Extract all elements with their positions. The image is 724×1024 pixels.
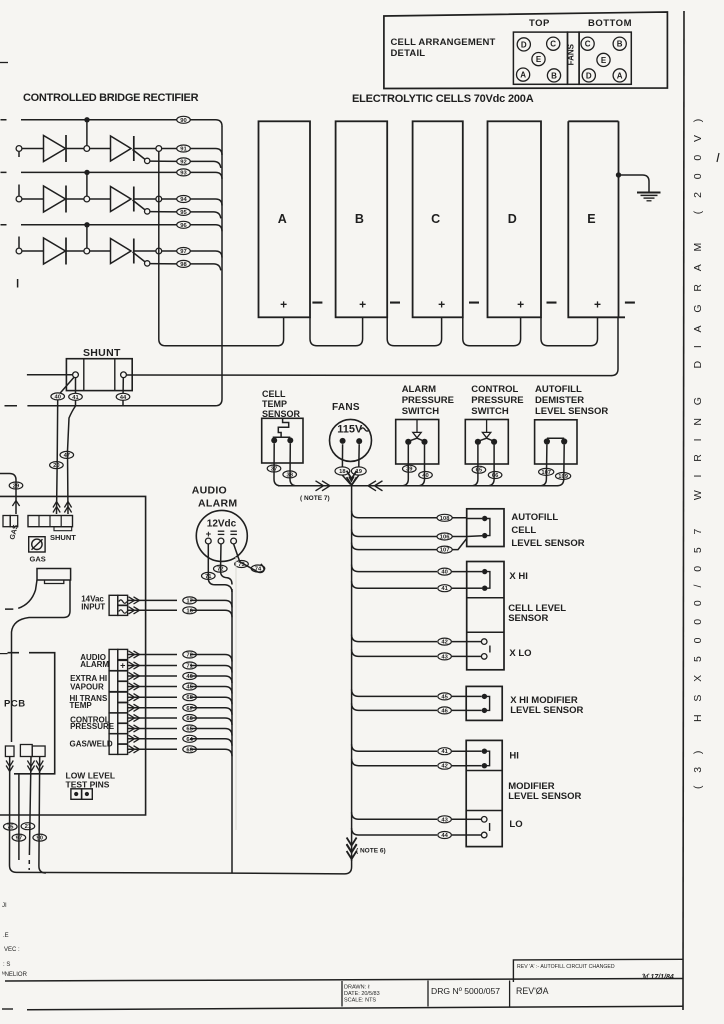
wire: demister lead 109 xyxy=(557,445,564,486)
svg-text:LEVEL SENSOR: LEVEL SENSOR xyxy=(535,406,608,417)
node: cell position E (top) xyxy=(532,53,545,66)
node 44 (oval) xyxy=(438,832,452,839)
fold line artifact (faint) xyxy=(235,557,237,830)
wire: CONTROL PRESSURE lead 65 xyxy=(128,729,232,736)
node 98 (oval label) xyxy=(177,260,191,267)
svg-text:SWITCH: SWITCH xyxy=(471,406,509,417)
node 29 (oval) xyxy=(9,482,23,489)
svg-text:C: C xyxy=(431,212,440,226)
node 96 (oval label on AC line 3) xyxy=(177,221,191,228)
wire: AC terminal stub row 1 xyxy=(18,152,20,157)
svg-text:+: + xyxy=(438,298,445,312)
svg-text:REV 'A' :- AUTOFILL CIRCUIT C: REV 'A' :- AUTOFILL CIRCUIT CHANGED xyxy=(517,964,615,970)
wire: demister lead 107 xyxy=(540,445,547,486)
shunt resistor body xyxy=(66,359,132,391)
svg-text:SHUNT: SHUNT xyxy=(83,347,121,359)
svg-text:CELL: CELL xyxy=(511,525,536,536)
autofill demister level sensor box xyxy=(535,420,577,464)
svg-text:TEMP: TEMP xyxy=(70,701,93,710)
node 106 (oval) xyxy=(437,533,452,540)
node 75 (oval) xyxy=(4,823,18,830)
wire: alarm pressure switch lead 40 xyxy=(418,445,425,486)
thyristor Q3 xyxy=(111,239,132,264)
connector chevron on lead 45 xyxy=(129,683,140,690)
svg-text:20: 20 xyxy=(53,463,59,469)
node 67 (oval) xyxy=(183,704,197,711)
node 66 (oval) xyxy=(488,472,502,479)
svg-text:C: C xyxy=(550,40,556,49)
terminal circle: alarm + xyxy=(205,538,211,544)
svg-text:E: E xyxy=(587,212,595,226)
svg-text:CONTROL: CONTROL xyxy=(471,384,518,395)
svg-text:ᴺNELIOR: ᴺNELIOR xyxy=(2,971,28,978)
wire: EXTRA HI VAPOUR lead 45 xyxy=(128,687,232,694)
svg-text:92: 92 xyxy=(180,159,186,165)
svg-text:E: E xyxy=(536,55,542,64)
X HI contacts xyxy=(485,572,490,589)
wire: X HI lead 2 xyxy=(352,581,467,588)
wire: autofill cell level sensor lead 3 xyxy=(352,539,467,550)
node 43 (oval) xyxy=(438,653,452,660)
svg-text:29: 29 xyxy=(13,484,20,490)
svg-text:18: 18 xyxy=(339,469,346,475)
svg-text:66: 66 xyxy=(492,473,499,479)
node 40 (oval) xyxy=(438,568,452,575)
svg-text:90: 90 xyxy=(180,118,186,124)
svg-text:72: 72 xyxy=(186,653,192,659)
svg-text:ALARM: ALARM xyxy=(198,498,237,510)
label: minus terminal 3 xyxy=(469,302,479,304)
wire: shunt sense lead B down to terminal block xyxy=(68,400,76,514)
svg-text:71: 71 xyxy=(205,574,212,580)
contact bar and dots: alarm pressure switch xyxy=(408,438,424,441)
wire: page edge dash mid-left xyxy=(0,653,8,655)
terminal block: SHUNT input xyxy=(28,516,73,527)
node 17 (oval) xyxy=(183,597,197,604)
svg-text:TEST PINS: TEST PINS xyxy=(66,780,110,790)
title block: revision note box xyxy=(513,959,683,982)
terminal block: HI TRANS TEMP xyxy=(109,692,118,713)
node 66 (oval) xyxy=(183,715,197,722)
svg-text:X HI: X HI xyxy=(509,571,527,582)
wire: CONTROL PRESSURE lead 66 xyxy=(128,718,232,725)
connector chevron on lead 72 xyxy=(129,651,140,658)
wire: D3 to junction xyxy=(66,250,84,252)
svg-text:39: 39 xyxy=(406,467,413,473)
svg-text:FANS: FANS xyxy=(566,43,575,65)
terminal circle: shunt right xyxy=(121,372,127,378)
svg-text:91: 91 xyxy=(180,147,187,153)
svg-text:41: 41 xyxy=(441,586,448,592)
svg-text:65: 65 xyxy=(476,468,483,474)
wire: fan lead 19 xyxy=(358,444,360,467)
svg-text:109: 109 xyxy=(558,474,568,480)
node: cell position B (top) xyxy=(547,69,560,82)
box: PCB outline xyxy=(8,653,55,774)
connector chevron on lead 63 xyxy=(129,746,140,753)
node 41 (oval) xyxy=(438,748,452,755)
terminal block: PCB outputs xyxy=(5,746,14,757)
contact bar: cell temp sensor xyxy=(273,436,291,438)
node 45 (oval) xyxy=(183,683,197,690)
wire: control pressure switch lead 65 xyxy=(471,445,478,486)
svg-text:B: B xyxy=(551,71,557,80)
wire: 14Vac INPUT lead 16 xyxy=(128,610,232,617)
wire: mid junction to thyristor row 1 xyxy=(90,148,111,150)
label: minus terminal 1 xyxy=(312,302,322,304)
wire: GAS/WELD lead 64 xyxy=(128,739,232,746)
svg-text:CONTROLLED BRIDGE RECTIFIER: CONTROLLED BRIDGE RECTIFIER xyxy=(23,92,199,104)
diode D1 xyxy=(44,136,66,162)
wire: anode lead row 3 xyxy=(22,250,44,252)
wire: temp sensor lead 37 xyxy=(274,443,281,485)
wire: mid junction to thyristor row 3 xyxy=(90,250,111,252)
svg-text:A: A xyxy=(617,71,623,80)
svg-text:12Vdc: 12Vdc xyxy=(207,519,237,530)
label: minus terminal 5 xyxy=(625,302,635,304)
cell E (electrolytic cell body) xyxy=(568,121,625,317)
connector chevron on lead 71 xyxy=(129,662,140,669)
wire: oval 44 stub to bus line xyxy=(122,400,124,406)
node 43 (oval) xyxy=(438,816,452,823)
wire: HI lead 1 xyxy=(352,744,467,751)
node 42 (oval) xyxy=(438,638,452,645)
wire: alarm spare lead (pigtail) xyxy=(234,544,264,573)
svg-text:65: 65 xyxy=(186,727,193,733)
node 37 (oval) xyxy=(267,465,281,472)
terminal circle: alarm -2 xyxy=(231,538,237,544)
svg-text:AUDIO: AUDIO xyxy=(192,485,227,497)
cell D (electrolytic cell body) xyxy=(488,121,542,317)
diode D2 xyxy=(44,186,66,212)
wire: X HI modifier lead 2 xyxy=(352,703,467,710)
wire: output junction to right bus row 3 xyxy=(162,251,222,258)
svg-text:96: 96 xyxy=(180,223,187,229)
node 94 (oval label) xyxy=(177,196,191,203)
terminal circle row 2 AC side xyxy=(16,196,22,202)
wire: alarm pressure switch lead 39 xyxy=(402,445,409,486)
node: mid junction circle row 1 xyxy=(84,146,90,152)
svg-text:D: D xyxy=(521,40,527,49)
node: cell position E (bottom) xyxy=(597,53,610,66)
node junction dot on AC line 1 xyxy=(84,117,89,122)
node 93 (oval label on AC line 2) xyxy=(177,169,191,176)
node 18 (oval) xyxy=(335,467,350,475)
wire: autofill cell level sensor lead 2 xyxy=(352,530,467,537)
svg-text:74: 74 xyxy=(255,567,262,573)
wire: D1 to junction xyxy=(66,148,84,150)
X LO contacts (open) xyxy=(481,639,487,645)
connector chevron on lead 64 xyxy=(129,735,140,742)
svg-text:107: 107 xyxy=(541,470,551,476)
svg-text:40: 40 xyxy=(422,473,428,479)
wire: ground tap xyxy=(621,175,650,192)
svg-text:ALARM: ALARM xyxy=(402,384,436,395)
svg-text:63: 63 xyxy=(186,747,193,753)
svg-text:43: 43 xyxy=(441,817,448,823)
wire: shunt right terminal to oval 44 xyxy=(122,378,124,393)
node 72 (oval) xyxy=(183,651,197,658)
svg-text:64: 64 xyxy=(186,737,193,743)
label: minus terminal 4 xyxy=(547,302,557,304)
wire: 14Vac INPUT lead 17 xyxy=(128,600,232,607)
svg-text:68: 68 xyxy=(186,695,193,701)
svg-text:46: 46 xyxy=(186,674,193,680)
node 74 (oval) xyxy=(251,565,265,572)
title block: drawn/date/scale cell xyxy=(341,981,343,1007)
node 47 (oval) xyxy=(60,451,74,458)
svg-text:LEVEL SENSOR: LEVEL SENSOR xyxy=(510,705,583,716)
wire: shunt left terminal to oval 40 (diagonal) xyxy=(60,377,74,393)
wire: LO lead 1 xyxy=(352,812,467,819)
wire: shunt left terminal to oval 41 xyxy=(75,378,77,393)
gas sensor symbol (circle-slash in box) xyxy=(29,537,45,552)
pressure actuator: alarm pressure switch xyxy=(416,420,418,433)
connector chevron on lead 68 xyxy=(129,694,140,701)
svg-text:AUTOFILL: AUTOFILL xyxy=(535,384,582,395)
node: output junction circle row 2 xyxy=(156,196,162,202)
svg-text:INPUT: INPUT xyxy=(81,602,105,611)
svg-text:115V: 115V xyxy=(337,424,363,436)
svg-text:FANS: FANS xyxy=(332,402,360,413)
node: cell position B (bottom) xyxy=(613,37,626,50)
wire: left page stub dashes near rectifier xyxy=(17,279,19,288)
wire: X HI lead 1 xyxy=(352,565,467,572)
node 72 (oval) xyxy=(214,565,228,572)
cell C (electrolytic cell body) xyxy=(413,121,463,317)
wire: D2 to junction xyxy=(66,198,84,200)
LO contacts (open) xyxy=(481,817,487,823)
connector chevron: gas lead xyxy=(12,501,19,507)
node 38 (oval) xyxy=(283,471,297,478)
wire: HI TRANS TEMP lead 68 xyxy=(128,697,232,704)
wire: fan lead 18 xyxy=(341,444,343,467)
node 108 (oval) xyxy=(437,514,452,521)
connector chevrons: note 6 xyxy=(347,838,357,853)
wire: AC input line 2 xyxy=(1,172,223,179)
node: cell position D (bottom) xyxy=(582,69,595,82)
node 65 (oval) xyxy=(472,466,486,473)
box: cell arrangement TOP compartment xyxy=(513,32,567,84)
dash: top-left page edge mark xyxy=(0,62,8,64)
audio alarm sounder (circle) xyxy=(196,510,247,561)
wire: gate wire to right bus row 3 xyxy=(150,264,221,271)
terminal block: CONTROL PRESSURE xyxy=(109,713,118,734)
node 40 (oval) xyxy=(51,393,65,400)
connector chevron on lead 46 xyxy=(129,672,140,679)
svg-text:CELL ARRANGEMENT: CELL ARRANGEMENT xyxy=(391,37,496,48)
thyristor Q1 xyxy=(111,136,132,161)
contact bar and dots: control pressure switch xyxy=(478,438,494,441)
wire: gate lead Q2 xyxy=(133,200,146,210)
wire: mid junction to thyristor row 2 xyxy=(90,198,111,200)
connector chevrons: shunt leads into terminal block xyxy=(53,502,60,513)
wire: series link cell D to cell E xyxy=(541,317,598,346)
wire: vertical from AC dot to mid junction row 2 xyxy=(86,175,88,196)
svg-text:94: 94 xyxy=(180,197,187,203)
node 45 (oval) xyxy=(438,693,452,700)
svg-text:AUTOFILL: AUTOFILL xyxy=(511,512,558,523)
connector chevron on lead 67 xyxy=(129,704,140,711)
modifier level sensor box xyxy=(466,740,502,846)
wire: rectifier right collector bus (x=222) down, turning left at y=406 xyxy=(5,126,223,406)
svg-text:66: 66 xyxy=(186,716,193,722)
wire: temp sensor lead 38 xyxy=(290,443,297,485)
node 21 (oval) xyxy=(21,823,35,830)
label: - terminal 1 (double bar) xyxy=(218,530,225,532)
svg-text:LEVEL SENSOR: LEVEL SENSOR xyxy=(511,538,584,549)
svg-text:21: 21 xyxy=(25,824,32,830)
svg-text:DATE: 20/5/83: DATE: 20/5/83 xyxy=(344,991,380,997)
svg-text:JI: JI xyxy=(2,903,7,909)
wire: vertical from AC dot to mid junction row 1 xyxy=(86,122,88,145)
wire: cathode to bus junction row 3 xyxy=(134,250,156,252)
svg-text:67: 67 xyxy=(186,706,192,712)
transformer tab xyxy=(45,580,64,584)
node: cell position C (bottom) xyxy=(581,37,594,50)
terminal circle row 1 AC side xyxy=(16,146,22,152)
node 71 (oval) xyxy=(202,572,216,579)
svg-text:106: 106 xyxy=(440,535,450,541)
wire: control pressure switch lead 66 xyxy=(487,445,494,486)
node: mid junction circle row 3 xyxy=(84,248,90,254)
wire: EXTRA HI VAPOUR lead 46 xyxy=(128,676,232,683)
wire: series link cell A to cell B xyxy=(310,317,363,346)
svg-text:DETAIL: DETAIL xyxy=(391,48,426,59)
alarm pressure switch box xyxy=(396,420,439,465)
svg-text:107: 107 xyxy=(440,548,450,554)
wire: AUDIO ALARM lead 71 xyxy=(128,666,232,673)
node 42 (oval) xyxy=(438,762,452,769)
svg-text:E: E xyxy=(601,56,607,65)
node 39 (oval) xyxy=(403,465,417,472)
svg-text:VAPOUR: VAPOUR xyxy=(70,682,104,691)
wire: sensor common line (note 7 bus) xyxy=(278,485,558,487)
wire: HI lead 2 xyxy=(352,759,467,766)
node 107 (oval) xyxy=(437,546,452,553)
svg-text:DRG Nº 5000/057: DRG Nº 5000/057 xyxy=(431,986,500,996)
connector chevron on lead 66 xyxy=(129,714,140,721)
transformer body outline (right/bottom) xyxy=(12,580,71,742)
svg-text:45: 45 xyxy=(186,685,193,691)
wire: gate lead Q1 xyxy=(133,150,146,160)
svg-text:TEMP: TEMP xyxy=(262,399,287,409)
node 63 (oval) xyxy=(183,746,197,753)
node 40 (oval) xyxy=(419,472,433,479)
connector chevrons on sensor common line xyxy=(316,481,331,491)
node 41 (oval) xyxy=(438,585,452,592)
svg-text:REV'ØA: REV'ØA xyxy=(516,986,549,996)
svg-text:VEC :: VEC : xyxy=(4,947,20,953)
svg-text:41: 41 xyxy=(72,395,79,401)
svg-text:43: 43 xyxy=(441,654,448,660)
svg-text:(3) HSX5000/057 WIRING DIAG: (3) HSX5000/057 WIRING DIAGRAM (200V) xyxy=(692,106,704,789)
node 68 (oval) xyxy=(183,694,197,701)
contact dots: cell temp sensor xyxy=(271,437,277,443)
terminal block: 14Vac INPUT xyxy=(109,595,118,615)
svg-text:DRAWN: ℓ: DRAWN: ℓ xyxy=(344,985,370,991)
svg-text:B: B xyxy=(617,40,623,49)
svg-text:38: 38 xyxy=(286,472,293,478)
svg-text:95: 95 xyxy=(180,210,187,216)
X HI modifier contacts xyxy=(484,696,489,710)
wire: bus tail to common return line xyxy=(17,855,352,874)
node: cell position D (top) xyxy=(517,38,530,51)
transformer body (top) xyxy=(37,569,71,581)
node 91 (oval label) xyxy=(177,145,191,152)
svg-text:C: C xyxy=(585,40,591,49)
svg-text:16: 16 xyxy=(186,608,193,614)
node 16 (oval) xyxy=(183,607,197,614)
wire: left signal bus (x=232) down to note-6 line xyxy=(231,589,233,873)
svg-text:41: 41 xyxy=(441,749,448,755)
diode D3 xyxy=(44,238,66,264)
node 44 (oval) xyxy=(116,393,130,400)
wire: X HI modifier lead 1 xyxy=(352,689,467,696)
wire: shunt sense lead A down to terminal block xyxy=(57,400,58,514)
svg-text:TOP: TOP xyxy=(529,18,550,29)
wire: main sensor bus (x=351.6) xyxy=(351,486,353,861)
svg-text:: S: : S xyxy=(3,962,10,968)
wire: PCB lead 1 xyxy=(10,757,17,873)
svg-text:73: 73 xyxy=(238,562,245,568)
node 64 (oval) xyxy=(183,735,197,742)
terminal circle: gate row 2 xyxy=(145,209,150,214)
node 97 (oval) xyxy=(12,834,26,841)
wire: gate lead Q3 xyxy=(133,252,146,262)
svg-text:PCB: PCB xyxy=(4,699,26,710)
svg-text:LO: LO xyxy=(509,819,522,830)
svg-text:PRESSURE: PRESSURE xyxy=(471,395,523,406)
wire: cathode to bus junction row 2 xyxy=(134,198,156,200)
svg-text:45: 45 xyxy=(441,694,448,700)
wire: AC input line 3 xyxy=(1,225,223,232)
node: ground tap junction dot on cell E xyxy=(616,172,621,177)
node 109 (oval) xyxy=(556,473,571,480)
wire: HI TRANS TEMP lead 67 xyxy=(128,708,232,715)
wire: autofill cell level sensor lead 1 xyxy=(352,511,467,518)
border: title strip bottom rule xyxy=(2,1008,13,1010)
node 46 (oval) xyxy=(183,673,197,680)
svg-text:( NOTE 7): ( NOTE 7) xyxy=(300,495,330,502)
connector chevron on lead 17 xyxy=(129,597,140,604)
wire: anode lead row 1 xyxy=(22,148,44,150)
svg-text:17: 17 xyxy=(186,598,192,604)
wire: PCB lead 4 xyxy=(39,757,46,874)
wire: output junction to right bus row 2 xyxy=(162,199,222,206)
wire: output junction to right bus row 1 xyxy=(162,149,222,156)
node: mid junction circle row 2 xyxy=(84,196,90,202)
wire: cathode to bus junction row 1 xyxy=(134,148,156,150)
cell temp sensor box xyxy=(262,418,303,463)
wire: transformer left lead curving to page edge xyxy=(5,580,37,609)
wire: line into shunt left terminal xyxy=(27,374,73,376)
node 73 (oval) xyxy=(235,561,249,568)
X HI modifier level sensor box xyxy=(466,686,502,720)
svg-text:+: + xyxy=(359,298,366,312)
svg-text:72: 72 xyxy=(217,567,223,573)
thyristor Q2 xyxy=(111,187,132,212)
node 97 (oval label) xyxy=(177,248,191,255)
connector chevrons: PCB output leads xyxy=(6,761,13,772)
node 19 (oval) xyxy=(351,467,366,475)
node junction dot on AC line 2 xyxy=(84,170,89,175)
node 41 (oval) xyxy=(69,393,83,400)
svg-text:+: + xyxy=(517,298,524,312)
box: cell arrangement BOTTOM compartment xyxy=(579,32,631,84)
svg-text:DEMISTER: DEMISTER xyxy=(535,395,584,406)
node junction dot on AC line 3 xyxy=(84,222,89,227)
